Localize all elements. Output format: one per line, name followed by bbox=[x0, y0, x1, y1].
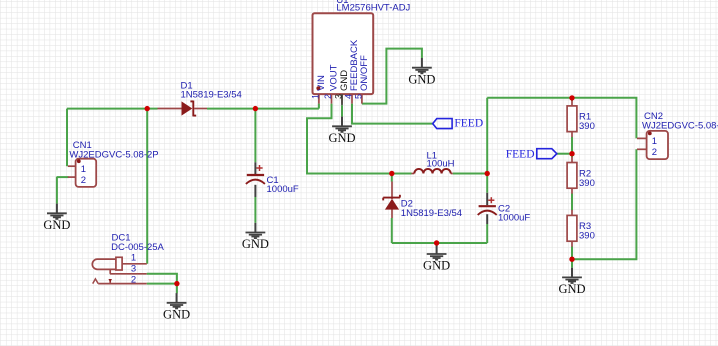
svg-text:FEED: FEED bbox=[454, 118, 483, 130]
node junction bottom rail ground bbox=[434, 240, 439, 245]
label D1 bbox=[181, 81, 193, 92]
svg-text:2: 2 bbox=[81, 175, 86, 186]
svg-text:3: 3 bbox=[333, 94, 343, 99]
svg-text:1: 1 bbox=[81, 164, 86, 175]
wire VIN rail left of D1 bbox=[67, 108, 158, 110]
resistor R3 390 bbox=[567, 210, 577, 247]
pin number 3 bbox=[333, 94, 343, 99]
wire bottom rail D2-C2 bbox=[392, 242, 487, 244]
wire top node to CN2 pin1 bbox=[487, 98, 636, 139]
inductor L1 100uH bbox=[412, 169, 453, 174]
wire R3 to ground node bbox=[571, 247, 573, 268]
svg-text:GND: GND bbox=[43, 218, 70, 232]
label C1 value bbox=[267, 184, 299, 195]
label R2 value bbox=[579, 178, 595, 189]
label R3 value bbox=[579, 231, 595, 242]
wire rail to C1 top bbox=[254, 109, 256, 163]
label R2 bbox=[579, 169, 591, 180]
svg-text:WJ2EDGVC-5.08-2P: WJ2EDGVC-5.08-2P bbox=[642, 121, 718, 132]
svg-text:2: 2 bbox=[323, 94, 333, 99]
label DC1 bbox=[112, 232, 131, 243]
pin number 1 bbox=[310, 94, 320, 99]
label D2 value bbox=[401, 208, 462, 219]
capacitor C2 1000uF bbox=[478, 193, 497, 224]
svg-text:GND: GND bbox=[163, 308, 190, 322]
wire top node to R1 bbox=[571, 98, 573, 101]
pin number 2 bbox=[323, 94, 333, 99]
wire node to D2 cathode bbox=[391, 174, 393, 182]
ground C1 bbox=[242, 223, 269, 251]
connector CN2 body bbox=[637, 131, 668, 159]
svg-text:FEED: FEED bbox=[506, 148, 535, 160]
wire CN1 ground drop bbox=[56, 177, 58, 204]
wire C1 bottom to ground bbox=[254, 197, 256, 223]
svg-text:GND: GND bbox=[328, 131, 355, 145]
label CN1 value bbox=[69, 149, 158, 160]
node junction VOUT/D2 bbox=[389, 171, 394, 176]
svg-text:1: 1 bbox=[131, 253, 136, 264]
capacitor C1 1000uF bbox=[246, 162, 265, 197]
net flag FEED (divider tap) bbox=[506, 148, 557, 160]
svg-text:3: 3 bbox=[131, 263, 136, 274]
ground DC1 bbox=[163, 293, 190, 321]
label CN2 bbox=[644, 111, 663, 122]
wire D2 anode to bottom rail bbox=[391, 218, 393, 243]
label D2 bbox=[401, 199, 413, 210]
pin name ON/OFF bbox=[359, 55, 370, 91]
node junction FEED tap bbox=[569, 151, 574, 156]
svg-text:390: 390 bbox=[579, 121, 595, 132]
connector CN1 body bbox=[68, 159, 96, 187]
pin number DC1-3 bbox=[131, 263, 136, 274]
wire C2 node riser to top node bbox=[486, 98, 488, 193]
svg-text:1000uF: 1000uF bbox=[267, 184, 299, 195]
wire rail to DC1 pin1 bbox=[146, 109, 148, 264]
svg-text:GND: GND bbox=[242, 237, 269, 251]
wire U1 GND pin to ground bbox=[341, 105, 343, 116]
pin name FEEDBACK bbox=[349, 39, 360, 91]
node junction L1/C2 bbox=[485, 171, 490, 176]
pin number 4 bbox=[343, 94, 353, 99]
pin name VOUT bbox=[329, 64, 340, 91]
label U1 bbox=[336, 0, 348, 6]
svg-text:1N5819-E3/54: 1N5819-E3/54 bbox=[401, 208, 462, 219]
label U1 value bbox=[336, 3, 410, 14]
wire VIN rail right of D1 bbox=[207, 108, 319, 110]
node junction rail/DC1 bbox=[145, 106, 150, 111]
svg-text:GND: GND bbox=[558, 282, 585, 296]
svg-text:DC-005-25A: DC-005-25A bbox=[111, 242, 164, 253]
svg-text:4: 4 bbox=[343, 94, 353, 99]
svg-text:390: 390 bbox=[579, 231, 595, 242]
label CN2 value bbox=[642, 121, 718, 132]
wire CN1 pin1 drop bbox=[66, 109, 68, 167]
svg-text:ON/OFF: ON/OFF bbox=[359, 55, 370, 91]
svg-text:1: 1 bbox=[310, 94, 320, 99]
pin number DC1-2 bbox=[131, 274, 136, 285]
label CN1 bbox=[73, 140, 92, 151]
connector DC1 barrel jack body bbox=[92, 257, 147, 283]
resistor R2 390 bbox=[567, 157, 577, 194]
svg-text:100uH: 100uH bbox=[427, 159, 455, 170]
wire DC1 ground drop bbox=[176, 284, 178, 294]
wire R2 to R3 bbox=[571, 194, 573, 211]
diode D2 1N5819-E3/54 bbox=[383, 182, 400, 219]
wire U1 ON/OFF to ground bbox=[362, 49, 422, 104]
ground R3 bbox=[558, 268, 585, 296]
svg-text:1000uF: 1000uF bbox=[498, 213, 530, 224]
pin number CN1-1 bbox=[81, 164, 86, 175]
label R1 bbox=[579, 112, 591, 123]
wire CN1 pin2 to ground stub bbox=[57, 176, 69, 178]
pin number DC1-1 bbox=[131, 253, 136, 264]
label C2 bbox=[498, 204, 510, 215]
svg-text:GND: GND bbox=[408, 72, 435, 86]
node junction bottom divider bbox=[569, 257, 574, 262]
resistor R1 390 bbox=[567, 100, 577, 137]
svg-text:GND: GND bbox=[423, 259, 450, 273]
label D1 value bbox=[181, 90, 242, 101]
ground CN1 bbox=[43, 204, 70, 232]
wire C2 bottom bbox=[486, 224, 488, 243]
wire bottom rail ground tap bbox=[436, 243, 438, 245]
svg-text:2: 2 bbox=[652, 147, 657, 158]
pin number CN2-2 bbox=[652, 147, 657, 158]
svg-text:VIN: VIN bbox=[316, 75, 327, 91]
label C1 bbox=[267, 175, 279, 186]
label R3 bbox=[579, 221, 591, 232]
svg-text:1N5819-E3/54: 1N5819-E3/54 bbox=[181, 90, 242, 101]
pin name GND bbox=[339, 70, 350, 91]
svg-text:1: 1 bbox=[652, 136, 657, 147]
label R1 value bbox=[579, 121, 595, 132]
diode D1 1N5819-E3/54 bbox=[158, 101, 208, 117]
ground bottom rail bbox=[423, 244, 450, 272]
pin name VIN bbox=[316, 75, 327, 91]
label L1 bbox=[427, 151, 438, 162]
pin number CN1-2 bbox=[81, 175, 86, 186]
svg-text:5: 5 bbox=[353, 94, 363, 99]
node junction DC1 ground bbox=[174, 281, 179, 286]
svg-text:WJ2EDGVC-5.08-2P: WJ2EDGVC-5.08-2P bbox=[69, 149, 158, 160]
wire L1 to C2 node bbox=[453, 173, 488, 175]
wire U1 FEEDBACK to FEED flag bbox=[352, 104, 433, 124]
op-amp U1 LM2576HVT-ADJ body bbox=[313, 13, 374, 105]
wire bottom node to CN2 pin2 bbox=[572, 149, 636, 259]
label L1 value bbox=[427, 159, 455, 170]
node junction top divider bbox=[569, 95, 574, 100]
wire DC1 pin2 to ground node bbox=[147, 283, 177, 285]
net flag FEED (feedback) bbox=[433, 118, 483, 130]
label DC1 value bbox=[111, 242, 164, 253]
wire U1 pin1 stub to rail bbox=[318, 104, 320, 109]
ground U1 on/off bbox=[408, 58, 435, 86]
label C2 value bbox=[498, 213, 530, 224]
wire U1 VOUT to L1 bbox=[307, 104, 412, 174]
ground U1 pin3 bbox=[328, 117, 355, 145]
wire FEED flag to divider tap bbox=[557, 153, 572, 155]
svg-text:390: 390 bbox=[579, 178, 595, 189]
wire R1 to R2 bbox=[571, 137, 573, 157]
pin number CN2-1 bbox=[652, 136, 657, 147]
svg-text:2: 2 bbox=[131, 274, 136, 285]
pin number 5 bbox=[353, 94, 363, 99]
wire DC1 pin3 to ground node bbox=[147, 274, 177, 284]
svg-text:VOUT: VOUT bbox=[329, 64, 340, 91]
node junction rail/C1 bbox=[253, 106, 258, 111]
svg-text:LM2576HVT-ADJ: LM2576HVT-ADJ bbox=[336, 3, 410, 14]
